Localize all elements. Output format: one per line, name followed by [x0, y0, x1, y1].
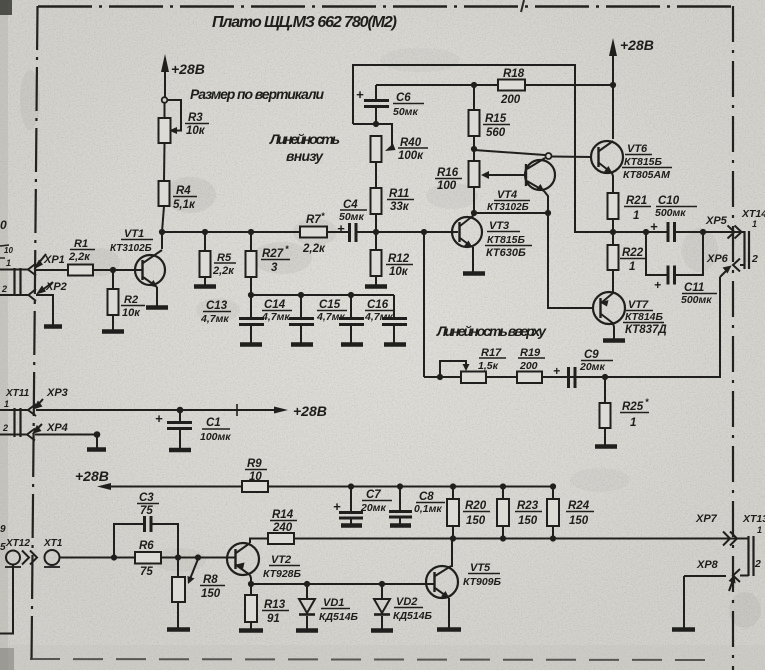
label R18 200 [500, 68, 525, 106]
edge fragment 5 [0, 542, 6, 553]
plug arrow XP8 [729, 575, 736, 592]
label XT14 pin2 [751, 253, 758, 265]
svg-text:R6: R6 [139, 540, 154, 552]
svg-text:200: 200 [519, 360, 538, 372]
svg-text:С8: С8 [419, 491, 434, 503]
ground R13 [239, 628, 263, 633]
capacitor C11 branch (parallel) [646, 232, 703, 285]
resistor R24 [547, 487, 559, 539]
connector XT14 bars [745, 231, 750, 269]
connector XT1 [44, 550, 60, 567]
wire VT1 emitter down [156, 287, 158, 306]
wire: main signal wire VT1 to R7 [162, 231, 300, 233]
label R2 10к [122, 294, 141, 319]
wire XP6 down to feedback [605, 277, 720, 377]
connector XT10 socket pin1 [28, 264, 36, 276]
svg-text:VT6: VT6 [627, 143, 648, 155]
svg-text:R19: R19 [520, 347, 541, 359]
label R3 10к [186, 112, 206, 137]
label R13 91 [264, 599, 286, 625]
svg-text:R12: R12 [388, 253, 410, 265]
label: Линейность вверху [436, 323, 547, 339]
resistor R15 [469, 110, 480, 136]
svg-text:R4: R4 [176, 185, 191, 197]
capacitor C7 [339, 487, 363, 525]
svg-text:33к: 33к [390, 201, 410, 213]
label R4 5,1к [173, 185, 196, 211]
svg-text:2: 2 [754, 558, 761, 570]
capacitor C6 [364, 85, 389, 124]
svg-text:Плато ЩЦ.МЗ 662 780(М2): Плато ЩЦ.МЗ 662 780(М2) [212, 14, 397, 31]
wire R13 stem [250, 584, 252, 595]
wire XP8 [684, 575, 726, 577]
coax connector XT12 [5, 551, 37, 568]
svg-text:1: 1 [4, 399, 9, 409]
resistor R27* [246, 251, 257, 277]
resistor R4 [159, 181, 170, 206]
svg-text:VT7: VT7 [628, 299, 649, 311]
wire node down [96, 435, 98, 449]
wire R2 to ground [112, 315, 114, 330]
label +28V mid [293, 403, 327, 419]
svg-text:R14: R14 [272, 509, 294, 521]
svg-text:ХР4: ХР4 [46, 422, 68, 434]
transistor VT4 [525, 158, 555, 213]
svg-text:внизу: внизу [286, 148, 324, 164]
resistor R20 [447, 487, 459, 539]
svg-text:VD2: VD2 [396, 596, 417, 608]
ground R5 [194, 284, 216, 289]
node output R21/R22 [610, 229, 616, 235]
label C13 4,7мк [200, 300, 229, 325]
svg-text:2: 2 [751, 253, 758, 265]
svg-text:10: 10 [249, 471, 262, 483]
wire node to R27 [250, 232, 252, 251]
label C1 100мк [155, 411, 231, 443]
board border right (dash-dot) [732, 6, 734, 670]
node XP4 ground [94, 431, 101, 438]
node R8 wiper tap [195, 554, 201, 560]
potentiometer R16 wiper from VT4 base [481, 171, 526, 179]
svg-text:+: + [654, 278, 661, 292]
label R7* 2,2к [302, 211, 326, 255]
wire C4 to VT3 base [356, 231, 458, 233]
node R2 top [110, 267, 116, 273]
connector XT11 socket pin2 [27, 429, 35, 441]
svg-text:VT3: VT3 [489, 220, 509, 232]
+28V label right [620, 37, 654, 53]
ground VT1 emitter [146, 305, 168, 310]
svg-text:4,7мк: 4,7мк [200, 313, 229, 325]
potentiometer R8 wiper [188, 559, 199, 584]
+28V label top left [171, 61, 205, 77]
wire VT3 collector bus [474, 212, 548, 214]
label R14 240 [272, 509, 294, 534]
svg-text:4,7мк: 4,7мк [316, 311, 345, 323]
wire R3 to R4 [163, 143, 166, 181]
scratch mark on top border [521, 0, 524, 12]
wire node to VT4 collector circle [474, 150, 545, 155]
ground C14 [291, 342, 313, 347]
svg-text:20мк: 20мк [579, 361, 605, 373]
label C7 20мк [333, 489, 386, 514]
potentiometer R17 body [461, 372, 486, 384]
svg-text:R25: R25 [622, 401, 644, 413]
label XT1 [43, 538, 63, 549]
wire XP2 to ground [36, 295, 53, 325]
svg-text:R22: R22 [622, 247, 644, 259]
svg-text:75: 75 [140, 505, 153, 517]
ground C8 [390, 523, 411, 528]
edge fragment 9 [0, 524, 6, 535]
svg-text:R3: R3 [188, 112, 203, 124]
wire XP8 to ground [683, 576, 685, 628]
label C16 4,7мк [364, 299, 393, 323]
label R24 150 [568, 500, 590, 527]
svg-text:VT2: VT2 [271, 554, 291, 566]
wire R1 to VT1 base [93, 269, 143, 271]
node C8 [397, 483, 403, 489]
ground XP4 [87, 447, 106, 452]
label XP8 [696, 559, 719, 571]
label XT14 pin1 [741, 208, 765, 229]
svg-text:КД514Б: КД514Б [319, 611, 359, 623]
wire emitter bus to VT5 base [251, 583, 435, 585]
svg-text:ХР1: ХР1 [43, 254, 65, 266]
label XP6 [706, 253, 729, 265]
wire VT6 emitter to R21 [612, 173, 613, 193]
board border left (dash-dot) [32, 6, 38, 662]
resistor R22 [608, 245, 619, 270]
svg-text:1: 1 [757, 525, 762, 535]
svg-text:С6: С6 [396, 92, 411, 104]
artifact tick on wire [236, 404, 238, 416]
ground VT7 [603, 338, 625, 343]
ground C15 [341, 342, 363, 347]
node R20 top [450, 483, 456, 489]
node C7 [348, 483, 354, 489]
wire R16 bottom to node [473, 187, 475, 213]
svg-text:R9: R9 [247, 458, 262, 470]
svg-text:R7: R7 [306, 214, 321, 226]
node C9/R25 [602, 374, 608, 380]
label: Размер по вертикали [190, 86, 324, 102]
resistor R23 [497, 487, 509, 539]
wire node to R5 [204, 232, 206, 251]
wire XP1 to R1 [36, 269, 68, 271]
label VT6 КТ815Б КТ805АМ [623, 143, 670, 181]
svg-text:+28В: +28В [620, 37, 654, 53]
node R23 bottom [500, 535, 506, 541]
svg-text:+: + [650, 219, 658, 234]
connector XT10 pin1 wire [0, 269, 28, 271]
+28V supply arrow (top left) [161, 54, 169, 97]
label R40 100к [398, 137, 424, 162]
label XT10 pin 2 [1, 284, 7, 294]
svg-text:С9: С9 [584, 349, 599, 361]
label R1 2,2к [68, 238, 91, 263]
wire R11 to main wire [375, 214, 377, 232]
label R8 150 [201, 574, 221, 600]
svg-text:0,1мк: 0,1мк [414, 503, 442, 515]
svg-text:1: 1 [752, 219, 757, 229]
svg-text:R1: R1 [74, 238, 88, 250]
svg-text:КТ909Б: КТ909Б [463, 576, 502, 588]
label XT13 pin1 [742, 513, 765, 535]
label XT12 [5, 538, 30, 549]
node VT4 emitter junction [545, 210, 551, 216]
svg-text:9: 9 [0, 524, 6, 535]
node R24 top [550, 483, 556, 489]
transistor VT6 [591, 141, 623, 174]
wire R15 to node [473, 136, 475, 149]
ground VT3 [463, 271, 485, 276]
node C11 branch [643, 229, 649, 235]
svg-text:3: 3 [271, 262, 278, 274]
label XT11 pin2 [2, 423, 8, 433]
resistor R18 [498, 80, 525, 91]
svg-text:КД514Б: КД514Б [393, 610, 433, 622]
wire R21 to output node [612, 219, 614, 232]
wire node to R15 [473, 85, 475, 110]
wire node to R2 [112, 270, 114, 289]
wire R25 to ground [604, 428, 606, 445]
node A main wire at VT1 collector [159, 229, 165, 235]
svg-text:R21: R21 [626, 195, 647, 207]
resistor R2 [108, 289, 119, 315]
label XP2 [45, 281, 67, 293]
wire XP4 to ground [35, 434, 97, 436]
plug arrow XP1 [34, 254, 47, 270]
svg-text:10к: 10к [389, 266, 409, 278]
label C11 500мк [654, 278, 712, 306]
svg-text:С10: С10 [658, 195, 680, 207]
capacitor C9 (series) [569, 367, 606, 388]
svg-text:КТ3102Б: КТ3102Б [487, 202, 529, 213]
wire R4 to collector node [162, 206, 164, 232]
svg-text:R27: R27 [262, 248, 284, 260]
label R6 75 [139, 540, 154, 578]
connector XT11 socket pin1 [28, 404, 36, 416]
node filter bus at C13 [248, 292, 254, 298]
potentiometer R40 body [371, 136, 382, 162]
connector XT10 socket pin2 [29, 289, 37, 301]
capacitor C13 [239, 295, 264, 343]
resistor R6 [135, 552, 161, 564]
svg-text:R18: R18 [503, 68, 525, 80]
svg-text:100: 100 [437, 180, 457, 192]
resistor R7* [300, 227, 327, 238]
capacitor C16 [382, 295, 407, 343]
label XT10 pin 10/1 [4, 246, 13, 268]
svg-text:КТ928Б: КТ928Б [263, 568, 302, 580]
svg-text:R13: R13 [264, 599, 286, 611]
label XT11 pin1 [4, 388, 30, 409]
svg-text:1: 1 [633, 210, 639, 222]
label C8 0,1мк [414, 491, 442, 515]
wire node to R12 [375, 232, 377, 250]
wire feedback R17-R19-C9 [424, 376, 568, 378]
diode VD2 [374, 584, 390, 629]
wire R12 to ground [375, 276, 377, 285]
ground C7 [341, 523, 362, 528]
plug arrow XP4 [32, 424, 42, 434]
wire node to R16 [473, 149, 475, 161]
plug arrow XP5 [728, 226, 742, 239]
svg-text:С15: С15 [319, 299, 341, 311]
label: Линейность внизу [269, 131, 340, 164]
resistor R21 [608, 193, 619, 219]
svg-text:R2: R2 [124, 294, 138, 306]
svg-text:ХТ13: ХТ13 [742, 513, 765, 525]
label R23 150 [517, 500, 539, 527]
label R16 100 [437, 167, 459, 192]
svg-text:КТ805АМ: КТ805АМ [623, 169, 670, 181]
node R17 left [437, 374, 443, 380]
resistor R1 [68, 265, 93, 276]
svg-text:5,1к: 5,1к [173, 199, 196, 211]
label R20 150 [465, 500, 487, 527]
svg-text:240: 240 [272, 522, 293, 534]
label C10 500мк [650, 195, 686, 234]
potentiometer R40 wiper [376, 124, 396, 151]
svg-text:VD1: VD1 [323, 597, 344, 609]
svg-text:ХР5: ХР5 [705, 215, 728, 227]
feedback tap from main wire [423, 232, 425, 377]
wire lower supply rail [108, 486, 553, 488]
svg-text:+28В: +28В [293, 403, 327, 419]
svg-text:VT5: VT5 [470, 562, 491, 574]
label C3 75 [139, 492, 154, 517]
svg-text:10: 10 [4, 246, 13, 255]
wire R13 to ground [250, 622, 252, 629]
svg-text:150: 150 [518, 515, 538, 527]
+28V supply arrow (right) [609, 38, 617, 85]
node feedback tap [421, 229, 427, 235]
wire XP3 to +28V arrow [36, 409, 282, 411]
svg-text:КТ630Б: КТ630Б [486, 247, 526, 259]
svg-text:560: 560 [486, 127, 506, 139]
svg-text:1: 1 [6, 258, 11, 268]
plug arrow XP7 [723, 532, 737, 546]
label VT5 КТ909Б [463, 562, 502, 588]
label C15 4,7мк [316, 299, 345, 323]
label R5 2,2к [212, 252, 235, 277]
capacitor C1 [167, 410, 192, 448]
svg-text:+28В: +28В [171, 61, 205, 77]
svg-text:ХТ1: ХТ1 [43, 538, 63, 549]
node XP5/C11 right [700, 229, 706, 235]
svg-text:10к: 10к [186, 125, 206, 137]
node +28V / R18 [610, 82, 616, 88]
svg-text:1: 1 [630, 417, 636, 429]
ground R12 [365, 284, 387, 289]
label R27* 3 [262, 244, 289, 274]
svg-text:С1: С1 [206, 417, 221, 429]
ground VD1 [296, 628, 318, 633]
transistor VT1 [135, 232, 165, 288]
svg-text:2,2к: 2,2к [302, 243, 326, 255]
label VT1 КТ3102Б [110, 228, 152, 254]
svg-text:ХР3: ХР3 [46, 387, 68, 399]
svg-text:50мк: 50мк [393, 106, 418, 118]
wire output node to R22 [612, 232, 614, 245]
potentiometer R8 body [172, 577, 185, 602]
arrow +28V lower rail [97, 483, 111, 490]
plug arrow XP3 [33, 399, 43, 410]
wire R5 to ground [204, 277, 206, 285]
wire C6 node to bootstrap [353, 123, 376, 125]
capacitor C4 (series) [350, 223, 357, 242]
svg-text:Линейность: Линейность [269, 131, 340, 147]
label C4 50мк [337, 199, 364, 236]
capacitor C14 [289, 295, 314, 343]
connector XT10 body bars [15, 268, 21, 296]
wire R14 to VT5 collector node (long bus) [294, 538, 748, 540]
resistor R9 [242, 481, 268, 492]
label R17 1,5к [478, 347, 502, 372]
svg-text:R11: R11 [389, 188, 409, 200]
svg-text:4,7мк: 4,7мк [364, 311, 393, 323]
svg-text:ХР6: ХР6 [706, 253, 729, 265]
svg-text:КТ837Д: КТ837Д [625, 324, 667, 336]
svg-text:ХР7: ХР7 [695, 513, 718, 525]
ground C16 [384, 342, 406, 347]
svg-text:С7: С7 [366, 489, 381, 501]
svg-text:R17: R17 [481, 347, 502, 359]
wire supply rail R18 row [376, 84, 613, 86]
svg-text:75: 75 [140, 566, 153, 578]
wire output node to C10 [613, 231, 667, 233]
svg-text:КТ814Б: КТ814Б [625, 311, 664, 323]
svg-text:Линейность вверху: Линейность вверху [436, 323, 547, 339]
svg-text:R8: R8 [203, 574, 218, 586]
svg-text:С13: С13 [206, 300, 228, 312]
node C14 [298, 292, 304, 298]
label VD2 КД514Б [393, 596, 433, 622]
wire XT12 shield down [0, 565, 13, 634]
svg-text:2,2к: 2,2к [68, 251, 91, 263]
ground VD2 [371, 628, 393, 633]
svg-text:0: 0 [0, 218, 7, 232]
label XP7 [695, 513, 718, 525]
ground C1 [169, 448, 191, 453]
svg-text:500мк: 500мк [681, 294, 712, 306]
svg-text:4,7мк: 4,7мк [261, 311, 290, 323]
node R16/VT3 collector [471, 210, 477, 216]
resistor R11 [371, 188, 382, 214]
wire R8 to ground [177, 602, 179, 628]
label R22 1 [622, 247, 644, 273]
wire R22 to VT7 emitter [612, 270, 614, 293]
node C15 [348, 292, 354, 298]
connector XT11 pin2 wire [0, 434, 27, 436]
wire VT4 emitter down to VT7 base [548, 213, 594, 308]
wire R8 stem [177, 558, 179, 578]
label R25* 1 [622, 397, 649, 429]
svg-text:VT4: VT4 [497, 189, 517, 201]
resistor R25* [600, 403, 611, 428]
svg-text:500мк: 500мк [655, 207, 686, 219]
transistor VT7 [593, 292, 625, 339]
svg-text:R23: R23 [517, 500, 539, 512]
label R9 10 [247, 458, 262, 483]
svg-text:2: 2 [2, 423, 8, 433]
label XP5 [705, 215, 728, 227]
svg-text:10к: 10к [122, 307, 141, 319]
board border bottom (dashed) [30, 659, 706, 660]
arrow +28V mid [274, 407, 288, 414]
